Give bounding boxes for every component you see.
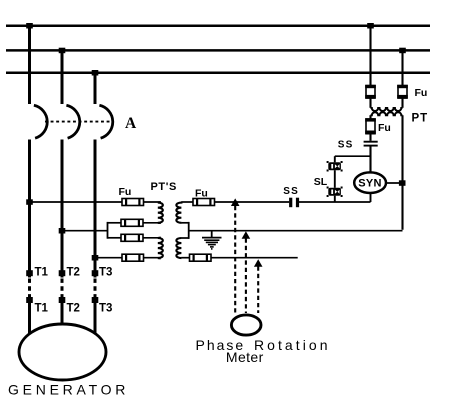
svg-text:T3: T3 (99, 303, 112, 315)
svg-text:A: A (125, 115, 137, 132)
svg-text:Fu: Fu (415, 87, 428, 99)
svg-text:T1: T1 (35, 266, 49, 278)
svg-text:PT: PT (412, 113, 429, 125)
svg-text:SL: SL (314, 176, 328, 188)
svg-text:SS: SS (283, 186, 299, 197)
svg-text:T1: T1 (35, 303, 49, 315)
svg-text:T2: T2 (67, 303, 80, 315)
svg-text:T3: T3 (99, 266, 112, 278)
svg-text:SYN: SYN (358, 178, 382, 190)
svg-text:GENERATOR: GENERATOR (8, 382, 129, 398)
svg-text:T2: T2 (67, 266, 80, 278)
svg-text:Meter: Meter (226, 349, 264, 365)
svg-text:Fu: Fu (378, 122, 391, 134)
svg-text:PT'S: PT'S (151, 181, 177, 193)
svg-text:SS: SS (338, 140, 354, 151)
svg-text:Rotation: Rotation (254, 337, 331, 353)
svg-text:Fu: Fu (195, 188, 208, 200)
svg-text:Fu: Fu (119, 186, 132, 198)
